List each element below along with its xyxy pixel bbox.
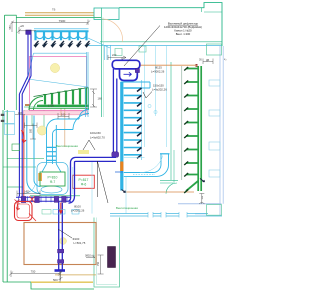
svg-text:220: 220 [112, 53, 117, 57]
leader to riser text [58, 229, 72, 238]
tan vertical pair x65 [61, 108, 65, 147]
fan riser end cap [112, 152, 119, 158]
svg-text:750: 750 [31, 269, 36, 273]
wall vertical teal x102 [102, 17, 104, 42]
svg-text:7900: 7900 [59, 19, 66, 23]
svg-text:Ф-6: Ф-6 [81, 183, 87, 187]
exhaust elbow horizontal bottom [124, 173, 157, 177]
duct right side vertical pair x86-88 [86, 52, 89, 117]
wall left second line [6, 110, 8, 282]
orange line to fan y65 [140, 64, 198, 66]
dim marks trunk top [203, 59, 213, 65]
yellow axis circle C [60, 238, 67, 245]
svg-text:ДБ: ДБ [206, 59, 210, 62]
bottom-left green outline [3, 282, 94, 289]
flanged duct purple node B [35, 196, 40, 202]
leader V under 150x150 [143, 92, 152, 99]
section marks left edge [1, 114, 5, 116]
supply duct corner arc [71, 157, 76, 196]
svg-text:L=№202,26: L=№202,26 [152, 87, 167, 91]
svg-text:Вентиляционная: Вентиляционная [116, 206, 138, 210]
small circles vent marks [148, 104, 151, 107]
svg-text:40Х: 40Х [18, 112, 23, 115]
green line above label y107 [24, 106, 88, 108]
yellow axis circle B [37, 126, 46, 135]
wall vertical teal x103 low [102, 42, 104, 117]
fire damper orange segment [120, 162, 123, 172]
bottom tan line y275 [55, 274, 96, 276]
riser coupling purple B [58, 260, 64, 264]
svg-text:Ф-7: Ф-7 [50, 180, 56, 184]
trunk bottom arrow [200, 179, 205, 183]
right wall window box 2 [209, 110, 220, 116]
svg-text:+20: +20 [20, 24, 25, 28]
wall top tan double band [25, 13, 94, 15]
fan unit riser double [113, 69, 116, 155]
svg-text:160: 160 [98, 97, 103, 101]
exhaust grille columns [45, 88, 86, 104]
exhaust elbow outer arc [153, 154, 169, 177]
exhaust grille left elbow [29, 97, 43, 111]
elbow arc turning down left [47, 119, 58, 134]
annotation leader line [124, 26, 160, 67]
fan unit top duct [112, 60, 140, 69]
left riser upper double [28, 34, 31, 76]
exhaust grille column caps [43, 88, 88, 95]
dim marks top-left second line [17, 27, 36, 34]
roof box top center [94, 8, 119, 20]
exhaust elbow hatch [133, 174, 155, 176]
intake grille columns [36, 31, 87, 40]
dim vertical 750 right [98, 255, 104, 274]
magenta room outline [29, 57, 86, 111]
trunk bottom end arrow [122, 190, 126, 193]
riser bottom tee [55, 269, 66, 272]
cyan bottom wall double line [110, 214, 222, 216]
svg-text:550: 550 [9, 25, 12, 30]
red drop duct with arrow [59, 203, 62, 214]
black leader vertical mid [97, 161, 108, 203]
thin room line x92 down [91, 162, 93, 214]
shaft left thin line [181, 66, 183, 180]
wall top-right horizontal [119, 3, 222, 46]
svg-text:500: 500 [30, 128, 33, 133]
closet box left wall 1 [5, 112, 15, 124]
green branch arrows [184, 67, 188, 193]
riser duct left rails x46-56 [47, 125, 57, 164]
fire damper red X on duct [15, 196, 35, 204]
partition vertical x144 [144, 46, 146, 147]
column box under wall A [115, 49, 122, 56]
closet box left wall 2 [5, 124, 15, 135]
dim 100 mid [58, 113, 69, 119]
left riser top cap [26, 30, 31, 34]
svg-text:Вентиляционная: Вентиляционная [56, 144, 78, 148]
SECTION: building walls [1, 3, 223, 289]
right wall window box 3 [209, 142, 220, 150]
dark red dots near trunk top [196, 65, 198, 67]
main ladder arrows [137, 88, 142, 158]
door arc bottom left [23, 185, 35, 194]
svg-text:0802 (к): 0802 (к) [85, 254, 94, 258]
exhaust grille right edge [88, 88, 90, 111]
fan unit scroll [120, 69, 138, 80]
dim line top 7900 [10, 20, 90, 33]
column box under wall B [139, 46, 146, 52]
red elbow diagonal [29, 214, 36, 222]
main exhaust ladder rungs [124, 88, 142, 155]
thin duct line x126 down [125, 176, 127, 213]
bottom yellow line [31, 281, 93, 283]
corridor green line y167 [3, 166, 36, 168]
yellow axis circle A [50, 63, 59, 72]
orange line y192 [124, 191, 194, 193]
main exhaust ladder top box [121, 82, 150, 88]
lower wing teal outline [94, 218, 120, 288]
cyan bottom wall tick pairs [148, 212, 187, 218]
stair box bottom wall [207, 205, 222, 216]
AHU label green box [40, 172, 65, 186]
exhaust elbow inner thin arc [140, 156, 163, 173]
lower wing inner line [97, 218, 118, 285]
flanged duct ticks [19, 196, 68, 202]
svg-text:100: 100 [61, 113, 66, 117]
green partition x32 mid [31, 110, 33, 126]
riser coupling purple A [58, 249, 64, 253]
green walls right of elbow y181 [160, 181, 178, 183]
red pipe beside riser [23, 115, 25, 197]
svg-text:500: 500 [53, 278, 58, 282]
wall top-right inner step [202, 8, 223, 12]
green trunk branches [186, 69, 198, 175]
right wall window box 1 [209, 80, 220, 86]
small green box corridor [12, 144, 20, 151]
intake arrows row [35, 41, 90, 47]
flanged duct purple node A [21, 196, 26, 202]
AHU unit rounded box [37, 163, 68, 195]
horizontal duct run y119-129 [57, 119, 79, 130]
supply duct elbow into flanged duct [69, 196, 75, 203]
exhaust grille left elbow inner [34, 101, 44, 111]
green partition x44 mid [43, 110, 45, 135]
duct elbow bottom outer [115, 171, 123, 173]
flanged duct purple node C [54, 196, 58, 202]
pink wall highlight band [24, 111, 88, 115]
flanged duct purple node D [62, 196, 66, 202]
svg-text:Б: Б [122, 56, 124, 60]
dim line bottom-left 150 [17, 191, 40, 197]
small dashed boxes near red elbow [42, 210, 51, 215]
dim 160 vertical right of grille [90, 89, 97, 107]
fan unit flange [135, 69, 139, 73]
wall mid horizontal teal at y42 [100, 41, 222, 43]
green corner arc near trunk [166, 183, 177, 194]
riser duct rungs [47, 147, 57, 160]
supply duct horizontal run [76, 157, 117, 161]
svg-text:Р=810: Р=810 [48, 176, 58, 180]
green exhaust trunk double line [198, 66, 201, 191]
wall left inner partition [15, 15, 17, 110]
AHU fan ellipse [41, 186, 62, 193]
equipment dark bar bottom [108, 247, 116, 268]
intake transition diagonal [88, 38, 110, 48]
flanged duct horizontal bottom-left [16, 197, 71, 201]
red arrow mid-left [22, 130, 27, 142]
left riser lower double [19, 94, 22, 197]
left riser diagonal [19, 76, 31, 94]
green trunk diagonal branch [186, 181, 198, 191]
brown tick left of grille [25, 104, 30, 106]
green wall y196 center [30, 195, 80, 197]
leader triangle under 100x150 [83, 140, 95, 150]
riser transition trapezoid [42, 164, 61, 172]
red elbow outline bottom-left [15, 202, 33, 221]
corridor green line y158.5 [7, 158, 44, 160]
wall mid horizontal cyan at y45.5 [88, 44, 222, 46]
supply duct bottom elbow to AHU [27, 180, 41, 194]
wall top-left horizontal [5, 14, 17, 16]
intake grille duct top bar [34, 28, 89, 30]
green partition x24 mid [23, 110, 25, 159]
wall left outer line [3, 15, 5, 282]
svg-text:L=9002,26: L=9002,26 [151, 69, 165, 73]
svg-text:750: 750 [97, 261, 100, 266]
exhaust grille base bar [37, 105, 89, 107]
partition vertical x155 [155, 46, 157, 116]
main exhaust ladder trunk [120, 82, 123, 191]
dim small 40X left [15, 114, 25, 116]
green wall y187 left [7, 186, 23, 188]
red arrow below duct start [16, 203, 20, 210]
wall vertical green x171 [170, 62, 172, 180]
dim small horizontal mid-left [25, 123, 38, 129]
svg-text:L=№602,70: L=№602,70 [90, 135, 105, 139]
svg-text:L=501,75: L=501,75 [74, 241, 86, 245]
green vertical x174 low [173, 150, 175, 183]
elbow arc from vertical x88 to horizontal [73, 110, 89, 130]
svg-text:1450: 1450 [24, 191, 30, 194]
wall vertical green x101 [101, 8, 103, 117]
yellow highlight mid [78, 150, 89, 154]
thin room line x72.8 down [72, 167, 74, 194]
fan unit inner mark [124, 72, 132, 76]
wall top green line under band [17, 17, 102, 19]
svg-text:Р=817: Р=817 [79, 178, 89, 182]
partition vertical x166 [166, 46, 168, 147]
svg-text:L=2002,26: L=2002,26 [71, 208, 85, 212]
SECTION: dimensions and texts [9, 8, 228, 283]
fan coil label red box [73, 175, 95, 188]
stair box top right [207, 44, 222, 55]
door swing arc top right [102, 19, 123, 42]
main exhaust ladder right rail [141, 80, 143, 160]
supply plenum top-left cyan outline [28, 52, 87, 87]
supply duct from plenum vertical pair [27, 116, 34, 181]
dim trunk bottom vertical [199, 194, 205, 205]
dim vertical under tee [59, 271, 63, 281]
right wall window box 4 [209, 170, 220, 177]
svg-text:ТВ: ТВ [52, 8, 56, 12]
exhaust grille base line [30, 107, 90, 109]
dim 500 vertical mid-left [30, 124, 36, 140]
supply plenum bottom taper line [28, 79, 89, 87]
dim line bottom 750 [9, 271, 62, 283]
red elbow inner line [17, 204, 30, 218]
svg-text:Вент. 1:200: Вент. 1:200 [176, 32, 191, 36]
brown roof opening rectangle [24, 223, 96, 265]
intake grille arches [37, 37, 86, 39]
bottom riser double [59, 202, 63, 270]
right wall pale blue vertical [220, 46, 223, 215]
AHU inlet orange patch [38, 173, 42, 181]
pale blue wall bottom right horizontal [178, 204, 222, 214]
svg-text:1700: 1700 [48, 104, 54, 108]
SECTION: ducts [12, 29, 205, 271]
exhaust grille taper line [34, 88, 89, 97]
exhaust elbow end cap [160, 153, 170, 155]
thin partition line y157.6 right [124, 157, 145, 159]
small duct verticals feeding fan [105, 46, 111, 61]
